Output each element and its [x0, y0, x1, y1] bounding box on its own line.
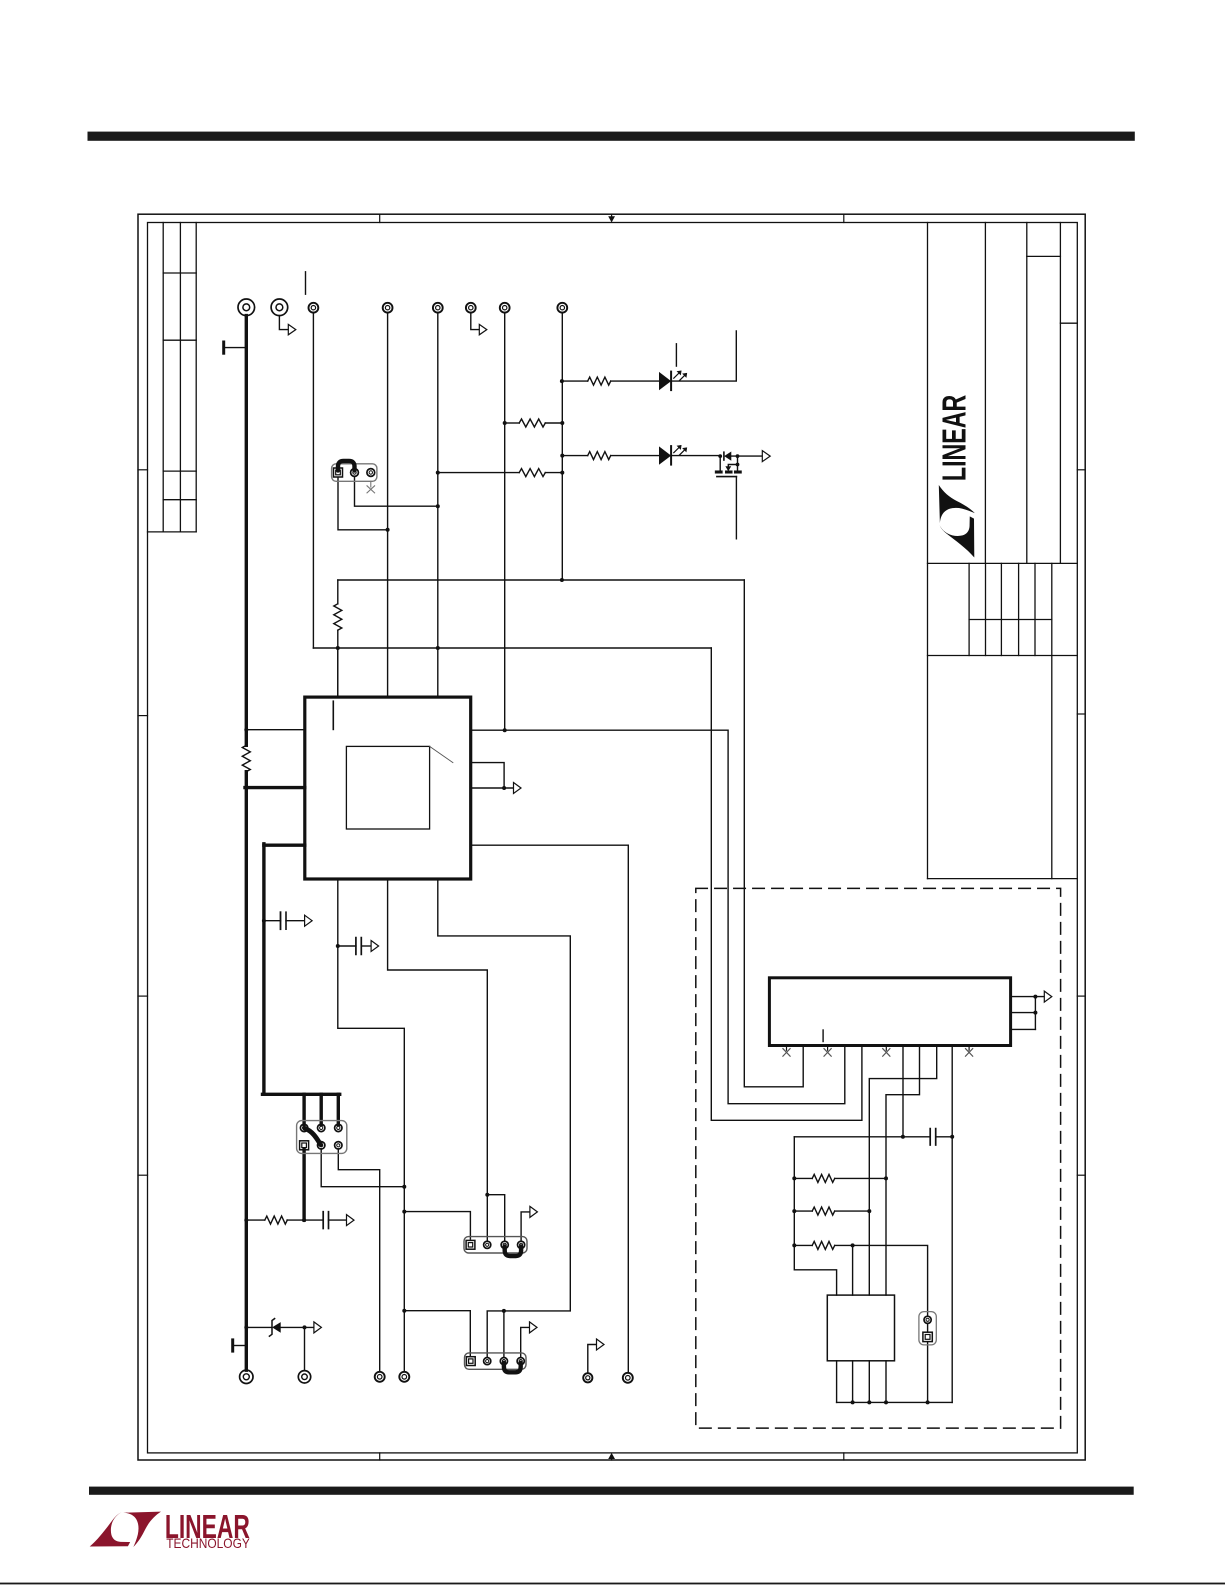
net label stub above LED1	[675, 344, 677, 366]
capacitor C4 row	[794, 1136, 930, 1138]
wire R1 to LED1	[611, 380, 660, 382]
wire U1 bottom pin c down	[438, 879, 571, 1357]
JP2 pin1 square	[334, 468, 343, 477]
frame centering arrow top	[608, 214, 615, 222]
title block left border	[927, 223, 929, 879]
LED D1	[660, 371, 687, 390]
title block band line 2	[928, 655, 1078, 657]
resistor R3	[588, 452, 611, 460]
wire U3 pin3 down	[868, 1361, 870, 1403]
thick JP1 pin4 down	[302, 1150, 305, 1221]
JP1 pin2	[318, 1124, 325, 1131]
rev table row line 1	[163, 272, 196, 274]
transistor Q1 (P-MOSFET with body diode)	[715, 452, 762, 476]
thick bus OUT horizontal	[263, 1093, 340, 1096]
wire U1 right pin 845	[471, 845, 629, 1373]
U2 comparator block	[769, 978, 1010, 1046]
wire LED1 to stub corner	[672, 331, 736, 381]
JP2 pin3	[367, 469, 375, 477]
frame inner border	[148, 223, 1078, 1453]
thick bus OUT vertical	[262, 844, 265, 1095]
turret E3	[309, 303, 319, 313]
turret E9	[240, 1370, 253, 1383]
wire U2 pin j down	[951, 1046, 953, 1403]
wire row B left	[794, 1210, 812, 1212]
tap symbol lower	[233, 1340, 247, 1351]
turret E6	[466, 303, 476, 313]
J2 pin4	[518, 1241, 525, 1248]
wire J3 pin3 branch	[503, 1311, 505, 1357]
LED D2	[660, 445, 687, 464]
wire node row 648	[313, 647, 711, 649]
frame tick right 4	[1077, 1174, 1085, 1176]
turret E1	[238, 299, 255, 316]
net arrow 2	[479, 324, 487, 334]
wire U2 pin g down	[902, 1046, 904, 1137]
J2 pin3	[501, 1241, 508, 1248]
wire node to turret	[304, 1327, 306, 1370]
turret E13	[583, 1373, 592, 1382]
wire E3 down	[312, 313, 314, 648]
bottom rule bar	[89, 1487, 1134, 1495]
thick JP1 feed 1	[302, 1094, 305, 1124]
resistor R4	[334, 604, 342, 630]
J2 pin2	[484, 1241, 491, 1248]
turret E10	[298, 1371, 310, 1383]
resistor R10	[519, 469, 545, 477]
Linear Technology logo (crimson)	[90, 1508, 250, 1551]
net arrow 11	[314, 1322, 322, 1333]
J3 pin3	[500, 1358, 507, 1365]
frame tick left 2	[138, 715, 148, 717]
frame tick top 2	[843, 214, 845, 222]
JP1 pin5	[318, 1142, 325, 1149]
title block mini column 2	[985, 563, 987, 655]
wire U2 right pins tie	[1034, 997, 1036, 1030]
wire bus 580 to U2 route	[744, 580, 803, 1087]
net arrow 8	[597, 1339, 605, 1350]
J3 pin2	[484, 1358, 491, 1365]
wire R10 right	[545, 472, 562, 474]
U2 no-connect X pin 3	[883, 1046, 890, 1057]
resistor R6	[265, 1216, 288, 1224]
wire J4 internal	[927, 1323, 929, 1332]
wire bottom bus	[837, 1401, 953, 1403]
wire U1 right pins loop	[471, 763, 504, 788]
wire JP1 pin6 row	[338, 1149, 379, 1372]
resistor R2	[519, 419, 545, 427]
U1 exposed pad	[346, 746, 429, 829]
title block mini column 6	[1051, 563, 1053, 655]
JP2 body	[332, 464, 377, 482]
capacitor C1 row	[264, 912, 312, 929]
title block drawing number column	[1051, 656, 1053, 879]
net arrow 3 (Q1 drain)	[762, 451, 770, 462]
frame tick left 3	[138, 995, 148, 997]
wire J2 pin3 branch	[487, 1195, 504, 1241]
resistor R7	[812, 1174, 835, 1182]
net label stub above E3	[305, 272, 307, 294]
turret E8	[557, 303, 567, 313]
capacitor C2	[322, 1212, 324, 1229]
frame tick right 1	[1077, 469, 1085, 471]
U2 no-connect X pin 1	[783, 1046, 790, 1057]
J3 pin1 square	[466, 1357, 475, 1366]
wire R10 row	[438, 472, 519, 474]
wire LED2 row left	[562, 455, 587, 457]
bottom edge hairline	[0, 1583, 1225, 1585]
wire E8 down	[561, 313, 563, 580]
title block mini column 1	[968, 563, 970, 655]
U1 label stub	[332, 701, 334, 729]
rev table row line 2	[163, 339, 196, 341]
title block column line b	[1026, 223, 1028, 564]
rev table column line 1	[162, 223, 164, 532]
wire U1 bottom pin b down	[388, 879, 488, 1240]
wire R4 to node	[337, 630, 339, 697]
Linear logo in title block (rotated)	[937, 395, 975, 558]
resistor R5 (in bus)	[242, 745, 250, 771]
svg-text:TECHNOLOGY: TECHNOLOGY	[166, 1536, 250, 1551]
wire U1 bottom pin a	[337, 648, 339, 697]
frame tick bottom 1	[379, 1453, 381, 1460]
rev table column line 3	[195, 223, 197, 532]
wire bus to D3	[246, 1326, 271, 1328]
wire R2 row	[505, 422, 520, 424]
wire row C left	[794, 1244, 812, 1246]
wire D3 to node	[280, 1326, 313, 1328]
thick JP1 feed 3	[337, 1094, 340, 1124]
rev table bottom line	[148, 531, 197, 533]
title block mini column 3	[1000, 563, 1002, 655]
J4 2-pin connector	[919, 1312, 936, 1345]
JP1 shunt diagonal	[305, 1129, 321, 1145]
turret E11	[375, 1372, 385, 1382]
wire U2 pin h jog	[886, 1046, 920, 1296]
frame tick right 3	[1077, 995, 1085, 997]
wire U2 pin i jog	[869, 1046, 936, 1296]
thick wire U1 OUT pin	[264, 844, 305, 847]
tap symbol upper	[224, 342, 247, 353]
JP2 shunt 1-2	[338, 461, 355, 471]
title block cell divider 2	[1060, 322, 1077, 324]
frame tick top 1	[379, 214, 381, 222]
wire row C right	[835, 1245, 928, 1316]
turret E5	[433, 303, 443, 313]
net arrow 5	[371, 941, 379, 952]
J3 body	[465, 1353, 527, 1369]
thick bus VIN upper	[245, 316, 248, 746]
wire LED2 to Q1	[672, 455, 720, 457]
frame outer border	[138, 214, 1085, 1460]
rev table column line 2	[179, 223, 181, 532]
wire E7 down	[504, 313, 506, 731]
wire J3 pin4 arrow	[521, 1327, 530, 1357]
title block mini column 5	[1034, 563, 1036, 655]
wire LED1 row left	[562, 380, 587, 382]
thick bus VIN lower	[245, 772, 248, 1370]
wire E2 to net arrow	[279, 316, 288, 330]
turret E2	[271, 299, 288, 316]
wire U1 bottom pin a down	[338, 879, 405, 1372]
wire R6 to C2	[287, 1219, 323, 1221]
frame centering arrow bottom	[608, 1453, 615, 1460]
frame tick bottom 2	[843, 1453, 845, 1460]
wire J4 to bus	[927, 1342, 929, 1403]
wire U1 right pin SENSE	[471, 730, 845, 1103]
wire Q1 gate stub	[735, 477, 737, 539]
title block mini column 4	[1018, 563, 1020, 655]
resistor R9	[812, 1241, 835, 1249]
wire row A right	[835, 1177, 886, 1179]
net arrow 12	[1044, 991, 1052, 1002]
wire U1 left thin pin	[246, 729, 304, 731]
frame tick left 1	[138, 469, 148, 471]
JP1 pin6	[335, 1142, 342, 1149]
wire bus 580	[338, 579, 745, 581]
net arrow 1	[288, 324, 296, 334]
capacitor C3 row	[338, 938, 371, 955]
thick wire U1 VIN pin	[245, 786, 305, 789]
J2 pin1 square	[466, 1240, 475, 1249]
J3 pin4	[517, 1358, 524, 1365]
wire E4 down to U1	[387, 313, 389, 697]
node dots	[560, 379, 564, 383]
wire JP1 pin5 row	[321, 1149, 404, 1187]
wire U3 pin4 down	[885, 1361, 887, 1403]
wire J3 pin1 feed	[404, 1311, 470, 1356]
turret E7	[500, 303, 510, 313]
wire R2 right	[545, 422, 562, 424]
J3 shunt 3-4	[504, 1363, 521, 1373]
zener row	[246, 1319, 321, 1371]
net arrow 10	[347, 1215, 355, 1226]
dashed boundary box	[696, 888, 1061, 1428]
U1 pad diagonal	[430, 746, 453, 762]
net arrow 7	[530, 1322, 538, 1333]
thick JP1 feed 2	[320, 1094, 323, 1124]
sense resistor row bottom	[246, 1212, 354, 1229]
wire row C to U3	[852, 1245, 854, 1295]
wire bus to R6	[246, 1219, 264, 1221]
net arrow 4	[514, 783, 522, 794]
U2 no-connect X pin 2	[824, 1046, 831, 1057]
wire U1 right pin 788	[471, 787, 514, 789]
turret E4	[383, 303, 393, 313]
wire bus 580 drop	[337, 580, 339, 604]
JP1 body	[297, 1121, 347, 1154]
wire J2 pin1 feed	[404, 1212, 470, 1239]
wire row A left	[794, 1177, 812, 1179]
JP1 pin3	[335, 1124, 342, 1131]
wire divider left leg	[794, 1137, 836, 1295]
title block band line 1	[928, 562, 1078, 564]
net arrow 9	[305, 915, 313, 926]
U2 no-connect X pin 4	[966, 1046, 973, 1057]
zener diode D3	[269, 1319, 274, 1337]
wire U3 pin2 down	[852, 1361, 854, 1403]
J2 shunt 3-4	[505, 1247, 521, 1257]
title block bottom line	[928, 878, 1078, 880]
J4 pin1	[924, 1316, 931, 1323]
resistor R8	[812, 1207, 835, 1215]
top rule bar	[88, 132, 1135, 141]
wire U2 right pin3	[1011, 1028, 1036, 1030]
U2 label stub	[822, 1030, 824, 1042]
resistor R1	[588, 377, 611, 385]
wire U2 right pin1	[1011, 996, 1044, 998]
wire row B right	[835, 1210, 870, 1212]
JP1 pin4 square	[300, 1141, 309, 1150]
wire node 648 corner down	[711, 648, 862, 1120]
title block mini row divider	[969, 619, 1052, 621]
title block column line c	[1059, 223, 1061, 564]
JP1 pin1	[300, 1124, 307, 1131]
J2 body	[464, 1237, 527, 1253]
frame tick left 4	[138, 1174, 148, 1176]
rev table row line 4	[163, 499, 196, 501]
wire E5 down to U1	[437, 313, 439, 697]
wire turret E13 arrow	[588, 1345, 596, 1374]
JP2 pin3 no-connect X	[367, 481, 375, 493]
U3 load switch block	[827, 1295, 894, 1361]
wire J2 pin4 arrow	[521, 1212, 530, 1241]
net arrow 6	[530, 1206, 538, 1217]
rev table row line 3	[163, 470, 196, 472]
wire U2 right pin2	[1011, 1012, 1036, 1014]
frame tick right 2	[1077, 713, 1085, 715]
wire U3 pin1 down	[836, 1361, 838, 1403]
JP2 pin2	[351, 469, 359, 477]
wire E6 to net arrow	[471, 313, 479, 330]
wire R3 to LED2	[611, 455, 660, 457]
title block cell divider 1	[1027, 255, 1061, 257]
turret E14	[623, 1373, 633, 1383]
title block column line a	[984, 223, 986, 564]
wire JP2 pin2 row	[355, 477, 438, 506]
turret E12	[399, 1372, 409, 1382]
J4 pin2 square	[923, 1332, 932, 1341]
op-amp U1 outline	[305, 697, 471, 879]
wire JP2 pin1 row	[338, 478, 388, 530]
